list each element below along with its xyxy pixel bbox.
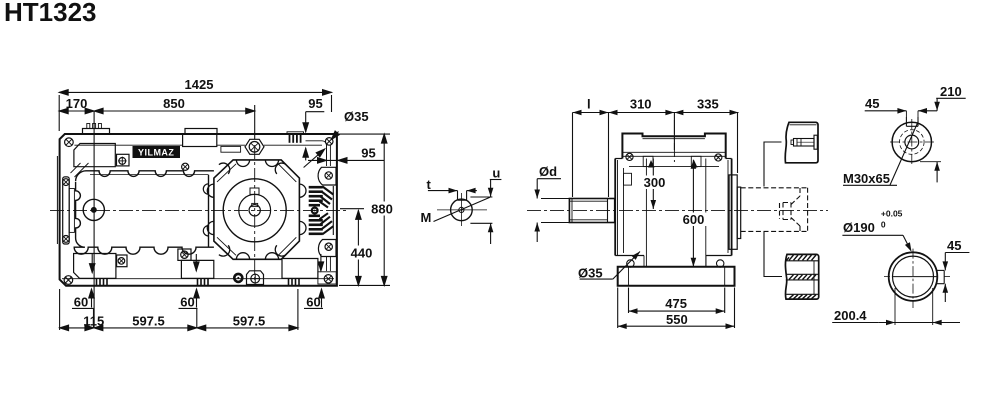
svg-text:Ø35: Ø35 [344, 109, 369, 124]
svg-text:M30x65: M30x65 [843, 171, 890, 186]
svg-text:l: l [587, 97, 591, 112]
svg-text:95: 95 [308, 96, 322, 111]
svg-text:HT1323: HT1323 [4, 0, 97, 27]
svg-text:300: 300 [644, 175, 666, 190]
svg-text:60: 60 [180, 295, 194, 310]
svg-text:335: 335 [697, 97, 719, 112]
svg-text:60: 60 [74, 295, 88, 310]
svg-text:u: u [492, 166, 500, 181]
svg-text:1425: 1425 [185, 77, 214, 92]
svg-text:850: 850 [163, 96, 185, 111]
svg-text:440: 440 [351, 246, 373, 261]
svg-text:200.4: 200.4 [834, 308, 867, 323]
svg-text:597.5: 597.5 [132, 314, 165, 329]
svg-text:600: 600 [683, 212, 705, 227]
svg-text:Ø35: Ø35 [578, 266, 603, 281]
svg-text:Ø190: Ø190 [843, 220, 875, 235]
svg-text:Ød: Ød [539, 164, 557, 179]
svg-text:YILMAZ: YILMAZ [138, 147, 175, 157]
svg-text:60: 60 [306, 295, 320, 310]
svg-text:475: 475 [665, 296, 687, 311]
svg-text:45: 45 [947, 238, 961, 253]
svg-text:880: 880 [371, 202, 393, 217]
svg-text:170: 170 [66, 96, 88, 111]
svg-text:115: 115 [83, 314, 104, 329]
svg-text:210: 210 [940, 84, 962, 99]
svg-text:t: t [427, 177, 432, 192]
svg-text:45: 45 [865, 96, 879, 111]
svg-text:M: M [421, 210, 432, 225]
svg-text:+0.05: +0.05 [881, 209, 903, 219]
svg-text:95: 95 [361, 146, 375, 161]
svg-text:310: 310 [630, 97, 652, 112]
svg-text:0: 0 [881, 220, 886, 230]
svg-text:550: 550 [666, 312, 688, 327]
svg-text:597.5: 597.5 [233, 314, 266, 329]
